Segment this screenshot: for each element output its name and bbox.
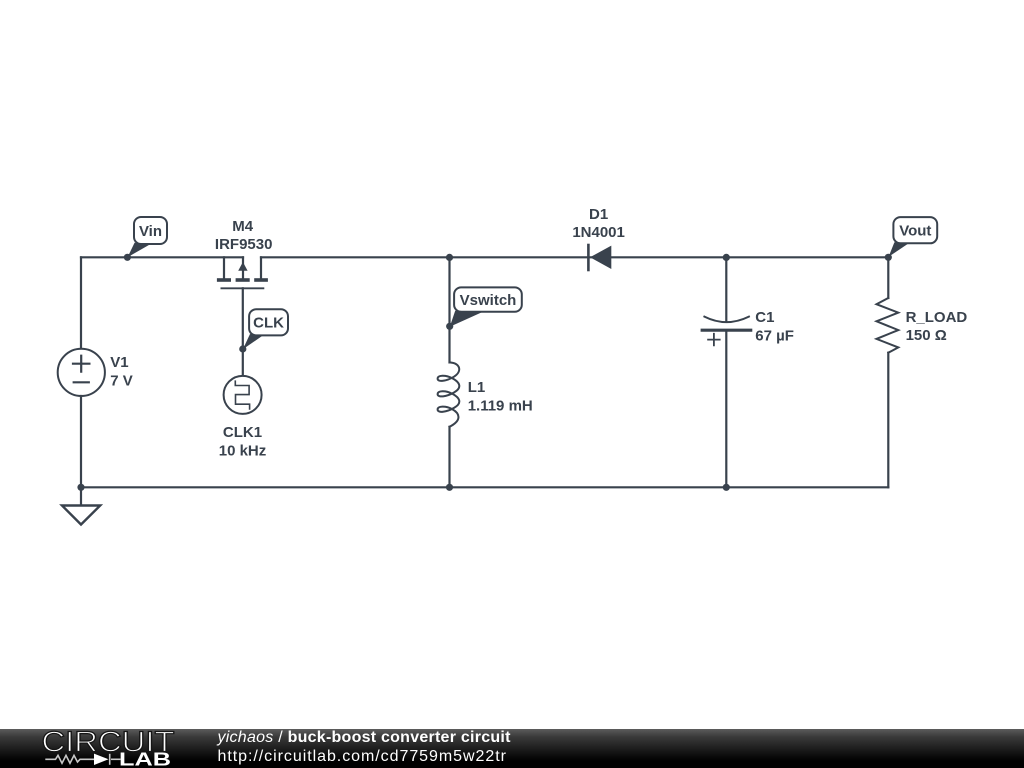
node Vswitch junction	[446, 323, 453, 330]
svg-text:R_LOAD: R_LOAD	[906, 309, 968, 326]
node Vswitch top junction	[446, 254, 453, 261]
wire ground stub	[80, 487, 82, 505]
wire right rail lower: R_LOAD to bottom rail	[887, 353, 889, 488]
wire top rail left: Vin node to M4 source lead	[81, 256, 243, 258]
svg-text:CLK1: CLK1	[223, 424, 262, 441]
inductor L1	[438, 362, 460, 426]
wire left rail lower: V1 to ground node	[80, 396, 82, 487]
resistor R_LOAD	[877, 298, 899, 353]
wire C1 branch lower	[725, 332, 727, 488]
wire Vswitch branch upper	[448, 257, 450, 362]
svg-text:L1: L1	[468, 379, 486, 396]
svg-text:Vswitch: Vswitch	[460, 292, 517, 309]
svg-text:C1: C1	[755, 309, 774, 326]
wire C1 branch upper	[725, 257, 727, 320]
label V1 name and value 7 V	[110, 354, 133, 389]
voltage source V1	[58, 349, 105, 396]
node Vout junction	[885, 254, 892, 261]
svg-text:Vout: Vout	[899, 223, 931, 240]
node C1 top junction	[723, 254, 730, 261]
wire CLK node to CLK1 source	[242, 349, 244, 376]
wire Vswitch branch lower	[448, 427, 450, 488]
ground symbol	[62, 506, 100, 525]
svg-text:Vin: Vin	[139, 223, 162, 240]
diode D1	[588, 245, 611, 270]
node Vin junction	[124, 254, 131, 261]
label CLK1 name and value 10 kHz	[219, 424, 267, 459]
wire bottom rail	[81, 486, 888, 488]
svg-text:D1: D1	[589, 206, 608, 223]
label C1 name and value 67 uF	[755, 309, 794, 344]
label L1 name and value 1.119 mH	[468, 379, 533, 414]
node L1 bottom junction	[446, 484, 453, 491]
capacitor C1	[702, 317, 751, 346]
net flag Vin	[128, 217, 167, 257]
svg-text:CLK: CLK	[253, 315, 284, 332]
svg-text:7 V: 7 V	[110, 372, 133, 389]
svg-text:1N4001: 1N4001	[572, 224, 625, 241]
node ground junction	[77, 484, 84, 491]
net flag Vout	[889, 217, 938, 257]
svg-text:10 kHz: 10 kHz	[219, 442, 267, 459]
net flag CLK	[243, 309, 288, 349]
svg-text:67 µF: 67 µF	[755, 327, 794, 344]
node CLK junction	[239, 345, 246, 352]
wire left rail upper: Vin corner down to V1	[80, 257, 82, 349]
wire top rail right: M4 drain to Vout corner	[261, 256, 888, 258]
svg-text:1.119 mH: 1.119 mH	[468, 397, 533, 414]
wire M4 gate to CLK node	[242, 288, 244, 349]
net flag Vswitch	[450, 287, 522, 326]
transistor M4 PMOS	[217, 257, 268, 288]
svg-text:150 Ω: 150 Ω	[906, 327, 947, 344]
clock source CLK1	[224, 376, 262, 414]
svg-text:LAB: LAB	[119, 749, 171, 768]
svg-text:IRF9530: IRF9530	[215, 236, 273, 253]
label R_LOAD name and value 150 Ohm	[906, 309, 968, 344]
node C1 bottom junction	[723, 484, 730, 491]
wire right rail upper: Vout to R_LOAD	[887, 257, 889, 298]
svg-text:M4: M4	[232, 218, 253, 235]
svg-text:V1: V1	[110, 354, 128, 371]
